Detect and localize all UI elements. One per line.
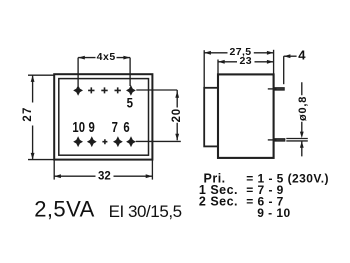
pin 6 (star, bottom row) <box>126 136 136 147</box>
dimension 27,5: dimension line <box>204 52 273 54</box>
dimension 4: dimension line <box>284 55 297 57</box>
svg-text:27: 27 <box>22 106 34 121</box>
pin 8 (cross, bottom row) <box>102 139 107 144</box>
dimension 27,5: left extension line <box>203 50 205 88</box>
svg-text:9 - 10: 9 - 10 <box>257 206 290 220</box>
pin 7 (star, bottom row) <box>113 136 123 147</box>
svg-text:32: 32 <box>98 171 111 183</box>
dimension 4x5: right extension line from pin 5 <box>129 58 131 86</box>
svg-text:ø0,8: ø0,8 <box>297 96 309 121</box>
dimension ø0,8: upper extension line from pin <box>286 138 308 140</box>
dimension ø0,8: lower extension line from pin <box>286 140 308 142</box>
dimension 20: leader line from pin 6 <box>136 140 181 142</box>
dimension 23: left arrowhead <box>218 60 225 64</box>
svg-text:5: 5 <box>127 95 133 110</box>
dimension 32: left arrowhead <box>54 174 61 178</box>
side view: lower pin centre tick <box>268 139 277 141</box>
transformer T1 side view: body <box>218 74 274 157</box>
dimension 27: dimension line <box>32 75 34 159</box>
dimension 27: top arrowhead <box>31 75 35 82</box>
svg-text:10: 10 <box>72 119 85 136</box>
transformer T1 side view: core lamination protrusion <box>204 88 218 147</box>
pin 1 (star, top row) <box>73 85 83 96</box>
svg-text:4x5: 4x5 <box>97 51 116 63</box>
dimension 27: bottom extension line <box>28 159 54 161</box>
dimension ø0,8: dimension line with tails <box>301 82 303 156</box>
svg-text:EI 30/15,5: EI 30/15,5 <box>109 202 182 221</box>
svg-text:4: 4 <box>298 47 306 62</box>
dimension 27,5: right extension line (shared with 23) <box>273 50 275 75</box>
dimension 23: dimension line <box>218 61 274 63</box>
pin 3 (cross, top row) <box>101 87 107 93</box>
dimension 4x5: left extension line from pin 1 <box>77 58 79 86</box>
side view: lower pin <box>274 139 285 141</box>
dimension 23: right arrowhead <box>267 60 274 64</box>
dimension 27: bottom arrowhead <box>31 153 35 160</box>
svg-text:2 Sec.: 2 Sec. <box>199 194 238 208</box>
dimension 27,5: left arrowhead <box>204 51 211 55</box>
svg-text:6: 6 <box>123 119 129 136</box>
svg-text:2,5VA: 2,5VA <box>34 197 95 222</box>
dimension 20: bottom arrowhead <box>175 134 179 141</box>
svg-text:9: 9 <box>88 119 94 136</box>
dimension 4x5: left arrowhead <box>78 56 85 60</box>
dimension 32: dimension line <box>54 175 152 177</box>
dimension 4x5: right arrowhead <box>123 56 130 60</box>
svg-text:7: 7 <box>112 119 118 136</box>
dimension 20: dimension line <box>176 90 178 140</box>
pin 5 (star, top row) <box>126 85 136 96</box>
dimension 20: leader line from pin 5 <box>136 89 177 91</box>
dimension 32: right arrowhead <box>146 174 153 178</box>
side view: upper pin <box>274 88 285 90</box>
dimension 20: top arrowhead <box>175 91 179 98</box>
dimension 23: left extension line above body <box>217 60 219 75</box>
dimension ø0,8: upper arrowhead (points down) <box>300 132 304 139</box>
pin 10 (star, bottom row) <box>73 136 83 147</box>
dimension 27: top extension line <box>28 74 54 76</box>
dimension 4: extension line at pin tip <box>283 56 285 84</box>
dimension 32: right extension line <box>151 160 153 179</box>
side view: upper pin centre tick <box>268 88 277 90</box>
pin 9 (star, bottom row) <box>87 136 97 147</box>
dimension 4: arrowhead <box>284 54 291 58</box>
pin 4 (cross, top row) <box>115 87 121 93</box>
pin 2 (cross, top row) <box>88 87 94 93</box>
dimension 27,5: right arrowhead <box>267 51 274 55</box>
dimension ø0,8: lower arrowhead (points up) <box>300 141 304 148</box>
transformer T1 bottom view: inner case outline <box>59 79 149 156</box>
dimension 4x5: dimension line <box>78 57 130 59</box>
svg-text:20: 20 <box>171 108 183 122</box>
transformer T1 bottom view: outer case outline <box>54 74 152 159</box>
svg-text:23: 23 <box>240 55 252 67</box>
dimension 32: left extension line <box>53 160 55 179</box>
